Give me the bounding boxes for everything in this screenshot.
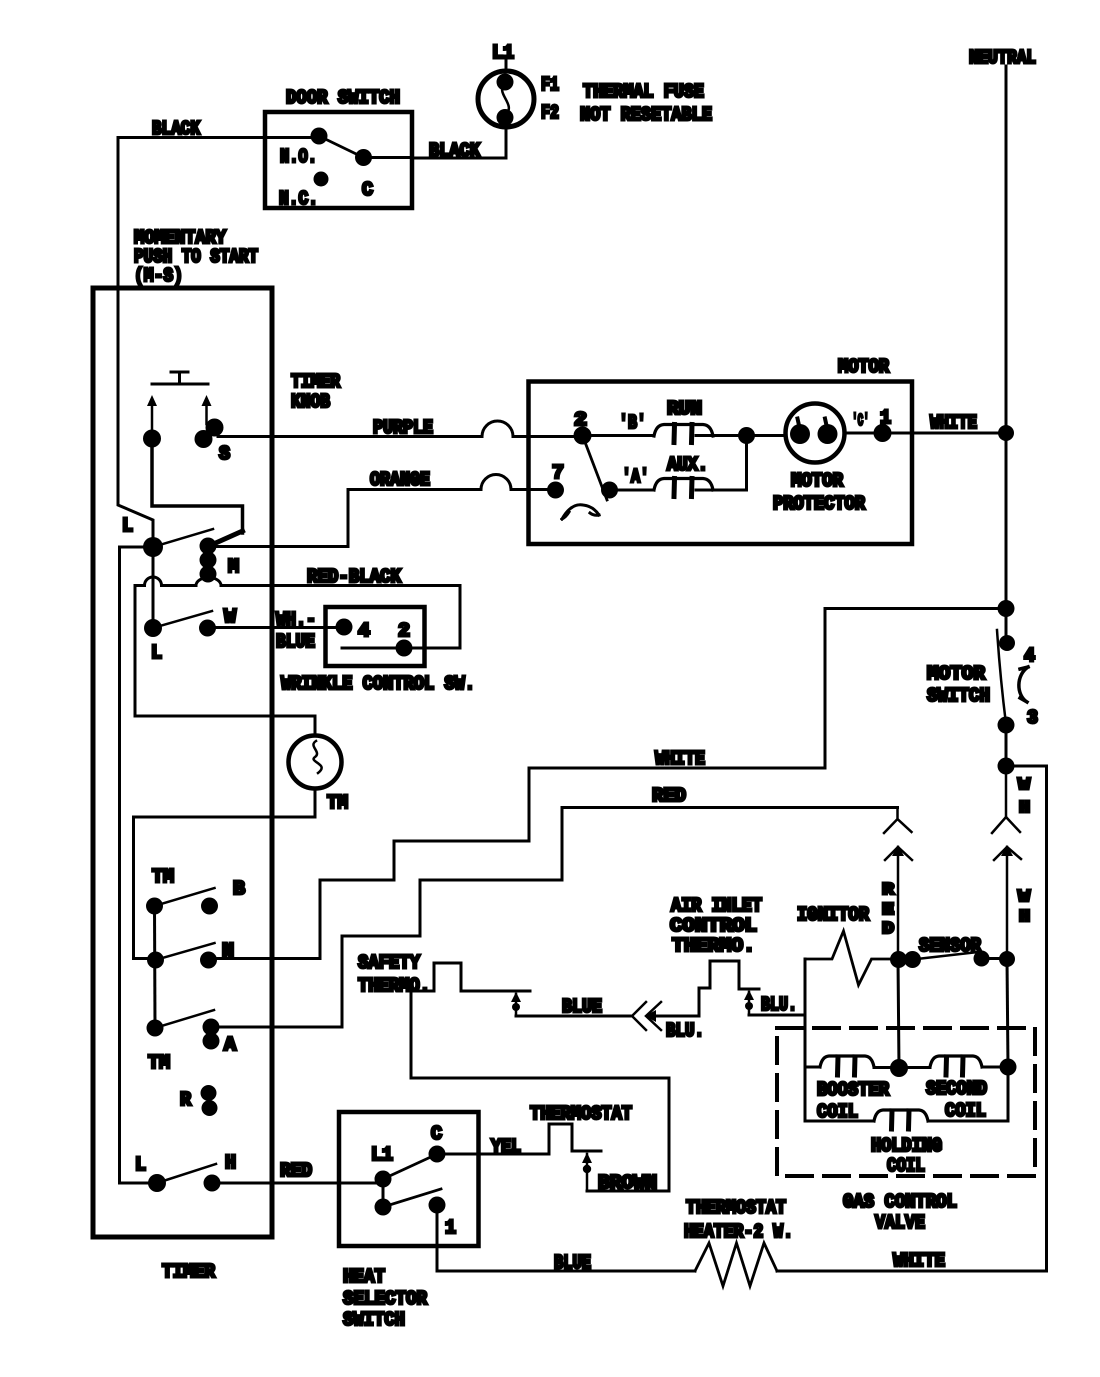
motor switch contact 3 dot: [998, 717, 1015, 734]
motor switch contact 4 dot: [999, 635, 1015, 651]
safety thermo connector arrow: [515, 994, 518, 1016]
svg-text:WHITE: WHITE: [930, 412, 977, 434]
wire sensor to WH line: [982, 957, 1008, 960]
gas control valve dashed box: [777, 1028, 1035, 1176]
contact dot TM B-row: [146, 898, 163, 915]
svg-text:THERMAL FUSE: THERMAL FUSE: [583, 81, 704, 103]
label F1: [541, 74, 559, 96]
svg-text:TM: TM: [152, 866, 174, 888]
svg-text:MOTOR: MOTOR: [927, 663, 986, 685]
label W H upper: [1018, 776, 1031, 818]
label 4 wrinkle: [358, 620, 370, 642]
svg-text:IGNITOR: IGNITOR: [797, 904, 870, 926]
label NOT RESETABLE: [580, 104, 712, 126]
contact dots A: [203, 1019, 220, 1050]
svg-text:S: S: [219, 443, 230, 465]
svg-text:THERMO.: THERMO.: [358, 975, 430, 997]
timer knob symbol: [152, 372, 208, 384]
wire C to fuse: [364, 156, 413, 159]
motor switch arm 2 to A: [583, 436, 608, 501]
label N.C.: [279, 188, 318, 210]
contact dot B: [201, 898, 218, 915]
svg-text:HEATER-2 W.: HEATER-2 W.: [684, 1221, 793, 1243]
contact dot W: [199, 620, 216, 637]
contact S blob: [195, 419, 224, 449]
centrifugal switch arc: [562, 505, 599, 519]
label MOTOR box: [838, 356, 890, 378]
wrinkle contact 2 dot: [396, 640, 413, 657]
svg-text:L: L: [151, 642, 162, 664]
label WRINKLE CONTROL SW.: [281, 673, 475, 695]
label WHITE motor right: [930, 412, 977, 434]
wire from L junction left and down left side: [120, 547, 158, 1183]
RED connector female chevron: [884, 808, 912, 834]
svg-text:L: L: [122, 515, 133, 537]
wrinkle control switch box: [326, 607, 425, 666]
svg-text:BLUE: BLUE: [562, 996, 602, 1018]
wire A to AUX coil: [610, 489, 655, 492]
svg-text:1: 1: [445, 1217, 456, 1239]
wire protector to node 1: [845, 432, 883, 435]
svg-text:A: A: [224, 1034, 237, 1056]
timer knob arrow right: [205, 404, 208, 424]
svg-text:WHITE: WHITE: [655, 748, 705, 770]
contact dot TM A-row: [147, 1020, 164, 1037]
svg-text:KNOB: KNOB: [291, 391, 330, 413]
wire 1 contact down to blue: [436, 1205, 439, 1271]
WH connector female chevron: [992, 766, 1020, 833]
door switch contact N.O.: [311, 128, 328, 145]
svg-text:THERMOSTAT: THERMOSTAT: [686, 1197, 786, 1219]
svg-text:COIL: COIL: [887, 1155, 925, 1177]
switch arm L to H: [157, 1164, 216, 1183]
holding coil winding: [874, 1110, 928, 1129]
switch arm TM to B: [155, 888, 215, 906]
wire C to thermostat YEL: [437, 1153, 549, 1156]
switch arm TM to A: [155, 1010, 214, 1028]
label GAS CONTROL VALVE: [843, 1191, 957, 1234]
fuse element S-curve: [502, 84, 509, 115]
label R: [180, 1089, 192, 1111]
motor switch arc arrow: [1019, 667, 1028, 702]
svg-text:M: M: [228, 556, 239, 578]
wire WHITE node1 to neutral: [882, 432, 1006, 435]
sensor switch arm: [913, 952, 979, 960]
label 3 motor switch: [1027, 707, 1038, 729]
wire RED-BLACK from M with hops: [135, 574, 460, 648]
label RED bottom: [280, 1160, 312, 1182]
svg-text:YEL: YEL: [491, 1136, 521, 1158]
svg-text:GAS CONTROL: GAS CONTROL: [843, 1191, 957, 1213]
svg-text:RED: RED: [652, 785, 686, 807]
label TIMER bottom: [162, 1261, 216, 1283]
label F2: [541, 102, 559, 124]
svg-text:TIMER: TIMER: [291, 371, 341, 393]
svg-text:H: H: [1019, 908, 1030, 927]
TM inner squiggle: [313, 741, 321, 773]
svg-text:R: R: [882, 881, 895, 900]
wire brown return to safety thermo: [411, 1078, 669, 1191]
label BLUE mid: [562, 996, 602, 1018]
junction dot L: [143, 537, 163, 557]
wire BLU to air inlet thermo: [653, 988, 710, 1016]
label BLACK left: [152, 118, 200, 140]
fuse terminal dot F1: [497, 74, 514, 91]
wire booster coil left: [805, 1066, 820, 1069]
safety thermo symbol: [411, 963, 530, 1078]
label YEL: [491, 1136, 521, 1158]
motor node 7 dot: [547, 482, 564, 499]
air inlet connector arrow: [748, 992, 751, 1015]
wire junction to second coil: [899, 1066, 930, 1069]
label NEUTRAL: [969, 47, 1036, 69]
label RED mid: [652, 785, 686, 807]
label SENSOR: [919, 935, 982, 957]
node 1 dot: [874, 424, 892, 442]
svg-text:AIR INLET: AIR INLET: [671, 895, 762, 917]
label S: [219, 443, 230, 465]
svg-text:NOT RESETABLE: NOT RESETABLE: [580, 104, 712, 126]
contact A dot: [601, 482, 618, 499]
label BOOSTER COIL: [817, 1079, 890, 1123]
wire BLACK left into door switch: [118, 136, 315, 139]
switch arm L to M: [153, 529, 213, 547]
label L bottom: [135, 1154, 146, 1176]
svg-text:WHITE: WHITE: [893, 1250, 945, 1272]
svg-text:MOTOR: MOTOR: [838, 356, 890, 378]
wire TM motor bottom return: [134, 789, 316, 959]
wire RED down to booster junction: [898, 960, 899, 1069]
svg-text:W: W: [1018, 888, 1031, 907]
svg-text:BOOSTER: BOOSTER: [817, 1079, 890, 1101]
svg-text:TIMER: TIMER: [162, 1261, 216, 1283]
svg-text:B: B: [233, 878, 245, 900]
door switch box: [265, 112, 412, 208]
label L at W-row: [151, 642, 162, 664]
label B: [233, 878, 245, 900]
label MOTOR SWITCH: [927, 663, 990, 707]
junction dots ignitor/red: [890, 951, 921, 968]
label MOTOR PROTECTOR: [773, 470, 866, 515]
junction dot booster/second: [890, 1059, 908, 1077]
label 7: [552, 462, 564, 484]
label 1 motor: [880, 407, 891, 429]
svg-text:WRINKLE CONTROL SW.: WRINKLE CONTROL SW.: [281, 673, 475, 695]
label A: [224, 1034, 237, 1056]
label 'C': [852, 412, 869, 431]
svg-text:(M-S): (M-S): [134, 265, 183, 287]
svg-text:BLUE: BLUE: [554, 1252, 591, 1274]
svg-text:7: 7: [552, 462, 564, 484]
wire to right side down: [1006, 766, 1047, 1271]
M-S linkage: [152, 439, 243, 547]
svg-text:RUN: RUN: [667, 398, 702, 420]
wire WHITE bottom: [777, 1270, 1047, 1273]
heat selector lower arm: [383, 1189, 441, 1207]
svg-text:W: W: [224, 606, 237, 628]
wire gas valve left vertical: [804, 959, 807, 1121]
svg-text:BLACK: BLACK: [152, 118, 200, 140]
svg-text:'B': 'B': [619, 412, 646, 434]
svg-text:3: 3: [1027, 707, 1038, 729]
wire neutral vertical: [1005, 66, 1008, 643]
switch arm to N: [156, 943, 215, 960]
label C heat selector: [431, 1123, 442, 1145]
wire TM column: [153, 906, 157, 1028]
svg-text:NEUTRAL: NEUTRAL: [969, 47, 1036, 69]
label TIMER KNOB: [291, 371, 341, 413]
junction dot second coil right: [1000, 1059, 1017, 1076]
WH connector male arrow: [994, 847, 1021, 959]
wire fuse F2 down to black wire: [412, 127, 506, 158]
label SAFETY THERMO.: [358, 952, 430, 997]
wire holding coil bottom right: [928, 1067, 1008, 1121]
svg-text:RED: RED: [280, 1160, 312, 1182]
junction dot WH: [998, 758, 1015, 775]
label L1 heat selector: [371, 1144, 393, 1166]
label 2: [574, 409, 587, 431]
heat selector contact C dot: [429, 1146, 446, 1163]
label BLU. right: [761, 994, 797, 1016]
thermal fuse F1/F2 circle: [478, 71, 534, 127]
heat selector arm L1 to C: [383, 1156, 433, 1179]
contact dot N-row left: [147, 952, 164, 969]
sensor contact dots: [974, 951, 1016, 968]
svg-text:BLUE: BLUE: [276, 631, 315, 653]
motor node 2 dot: [574, 427, 592, 445]
label N: [222, 940, 234, 962]
svg-text:RED-BLACK: RED-BLACK: [307, 566, 402, 588]
label AUX.: [667, 454, 708, 476]
label 'A': [622, 466, 649, 488]
switch arm L to W: [153, 611, 212, 628]
label IGNITOR: [797, 904, 870, 926]
label WHITE bottom: [893, 1250, 945, 1272]
RUN winding: [654, 425, 713, 443]
wire WH-BLUE from W to wrinkle 4: [208, 626, 345, 629]
RED connector male arrow: [885, 847, 912, 959]
label THERMOSTAT HEATER-2 W.: [684, 1197, 793, 1243]
contact dot L bottom row: [148, 1174, 166, 1192]
door switch contact C: [355, 149, 372, 166]
wire ORANGE from M to motor node 7: [208, 475, 556, 547]
svg-text:D: D: [882, 920, 894, 939]
second coil winding: [930, 1056, 982, 1075]
svg-text:DOOR SWITCH: DOOR SWITCH: [286, 87, 400, 109]
label MOMENTARY PUSH TO START (M-S): [134, 227, 258, 287]
svg-text:W: W: [1018, 776, 1031, 795]
label HOLDING COIL: [871, 1135, 942, 1177]
svg-text:L: L: [135, 1154, 146, 1176]
svg-text:N.O.: N.O.: [280, 146, 317, 168]
svg-text:4: 4: [358, 620, 370, 642]
label SECOND COIL: [926, 1078, 987, 1122]
label 4 motor switch: [1024, 645, 1035, 667]
svg-text:2: 2: [398, 620, 410, 642]
label L upper: [122, 515, 133, 537]
svg-text:4: 4: [1024, 645, 1035, 667]
protector contact dots: [790, 424, 838, 444]
svg-text:THERMOSTAT: THERMOSTAT: [530, 1103, 632, 1125]
label RUN: [667, 398, 702, 420]
svg-text:E: E: [882, 901, 894, 920]
timer motor TM circle: [289, 736, 342, 789]
label C door switch: [362, 179, 373, 201]
label TM circle: [327, 792, 348, 814]
wire N to white staircase: [209, 957, 321, 960]
label BROWN: [598, 1172, 657, 1194]
fuse terminal dot F2: [497, 109, 514, 126]
svg-text:N.C.: N.C.: [279, 188, 318, 210]
svg-text:ORANGE: ORANGE: [370, 469, 430, 491]
wire junction to motor protector: [747, 434, 786, 437]
svg-text:SAFETY: SAFETY: [358, 952, 421, 974]
svg-text:WH.-: WH.-: [276, 609, 316, 631]
svg-text:HEAT: HEAT: [343, 1266, 385, 1288]
wire RED horizontal run: [342, 808, 898, 1028]
wrinkle contact 4 dot: [336, 619, 353, 636]
svg-text:BLU.: BLU.: [761, 994, 797, 1016]
svg-text:C: C: [362, 179, 373, 201]
svg-text:BLACK: BLACK: [429, 140, 481, 162]
svg-text:L1: L1: [492, 42, 514, 64]
thermostat symbol: [549, 1124, 601, 1153]
motor box: [529, 382, 913, 545]
wire L junction down to W row: [152, 547, 155, 628]
wire A to red staircase: [211, 1026, 342, 1029]
wire neutral junction to white run: [529, 609, 1006, 769]
wire PURPLE from S to motor node 2: [218, 421, 583, 437]
timer knob arrow left: [151, 404, 154, 430]
svg-text:C: C: [431, 1123, 442, 1145]
label M: [228, 556, 239, 578]
svg-text:TM: TM: [327, 792, 348, 814]
wire WH down to second coil: [1007, 959, 1008, 1067]
ignitor element: [805, 931, 890, 985]
motor protector circle: [786, 404, 845, 463]
label ORANGE: [370, 469, 430, 491]
wire BLU right: [749, 1014, 805, 1017]
label DOOR SWITCH: [286, 87, 400, 109]
svg-text:AUX.: AUX.: [667, 454, 708, 476]
label WHITE mid: [655, 748, 705, 770]
svg-text:H: H: [1019, 799, 1030, 818]
svg-text:VALVE: VALVE: [875, 1212, 925, 1234]
wire L1 to lower contact: [382, 1179, 385, 1207]
wire BLACK vertical down left side: [118, 138, 153, 548]
door switch contact N.C.: [314, 172, 329, 187]
heat selector switch box: [339, 1112, 479, 1246]
BLU connector chevron pair: [632, 1002, 661, 1030]
wire AUX up to junction: [696, 436, 747, 491]
svg-text:2: 2: [574, 409, 587, 431]
svg-text:PROTECTOR: PROTECTOR: [773, 493, 866, 515]
svg-text:CONTROL: CONTROL: [670, 915, 757, 937]
wire WHITE staircase to N: [320, 768, 529, 959]
label THERMOSTAT mid: [530, 1103, 632, 1125]
AUX winding: [654, 479, 713, 497]
door switch arm N.O. to C: [319, 136, 364, 158]
label H bottom: [225, 1152, 236, 1174]
wire node2 to RUN coil: [583, 434, 655, 437]
label R E D vertical: [882, 881, 895, 939]
wire BLUE bottom: [437, 1270, 695, 1273]
label WH.-BLUE: [276, 609, 316, 653]
thermostat heater resistor: [695, 1243, 777, 1286]
label RED-BLACK: [307, 566, 402, 588]
contact M stack: [200, 538, 217, 583]
svg-text:BLU.: BLU.: [666, 1020, 704, 1042]
svg-text:SECOND: SECOND: [926, 1078, 987, 1100]
contact dot on left arrow: [143, 430, 161, 448]
svg-text:SWITCH: SWITCH: [343, 1309, 405, 1331]
heat selector lower contact dot: [375, 1199, 392, 1216]
wire BLUE: [516, 1015, 630, 1018]
thermostat connector arrow: [586, 1154, 589, 1191]
wire second coil right: [982, 1066, 1008, 1069]
svg-text:SWITCH: SWITCH: [927, 685, 990, 707]
wire RUN to junction: [696, 434, 747, 437]
label HEAT SELECTOR SWITCH: [343, 1266, 428, 1331]
svg-text:'A': 'A': [622, 466, 649, 488]
contact dot N: [200, 952, 217, 969]
wire booster to junction: [874, 1066, 899, 1069]
junction dot neutral motor switch: [998, 600, 1015, 617]
svg-text:H: H: [225, 1152, 236, 1174]
label BLUE bottom: [554, 1252, 591, 1274]
svg-text:THERMO.: THERMO.: [672, 935, 755, 957]
svg-text:'C': 'C': [852, 412, 869, 431]
svg-text:HOLDING: HOLDING: [871, 1135, 942, 1157]
wrinkle inner wire: [342, 647, 404, 650]
label THERMAL FUSE: [583, 81, 704, 103]
contact dot W-row left: [144, 619, 162, 637]
junction dot run/aux: [738, 427, 755, 444]
svg-text:R: R: [180, 1089, 192, 1111]
label TM B-row: [152, 866, 174, 888]
motor switch arm: [997, 630, 1006, 724]
label 2 wrinkle: [398, 620, 410, 642]
label BLACK right: [429, 140, 481, 162]
label PURPLE: [373, 417, 433, 439]
svg-text:COIL: COIL: [945, 1100, 986, 1122]
air inlet control thermo symbol: [710, 961, 759, 989]
label 'B': [619, 412, 646, 434]
contact dot H: [204, 1175, 221, 1192]
timer box: [93, 288, 272, 1237]
protector contact ticks: [798, 419, 828, 431]
label TM A-row: [148, 1052, 170, 1074]
svg-text:L1: L1: [371, 1144, 393, 1166]
wire L1 to thermal fuse: [505, 60, 508, 72]
wire to TM motor top: [135, 586, 315, 736]
junction dot neutral at white: [998, 425, 1014, 441]
label 1 heat selector: [445, 1217, 456, 1239]
svg-text:SELECTOR: SELECTOR: [343, 1288, 428, 1310]
booster coil winding: [820, 1056, 874, 1075]
label W: [224, 606, 237, 628]
wire contact3 down: [1005, 725, 1008, 766]
svg-text:TM: TM: [148, 1052, 170, 1074]
node L1 label: [492, 42, 514, 64]
label AIR INLET CONTROL THERMO.: [670, 895, 762, 957]
svg-text:F1: F1: [541, 74, 559, 96]
wire holding coil bottom left: [805, 1120, 874, 1123]
svg-text:MOTOR: MOTOR: [791, 470, 844, 492]
svg-text:F2: F2: [541, 102, 559, 124]
label W H lower: [1018, 888, 1031, 927]
svg-text:PURPLE: PURPLE: [373, 417, 433, 439]
